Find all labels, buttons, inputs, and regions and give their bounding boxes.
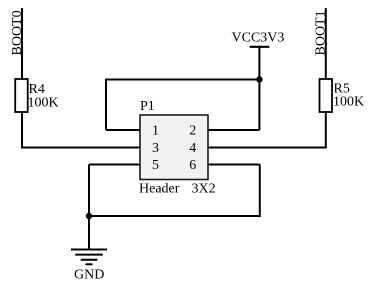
svg-text:GND: GND xyxy=(74,268,104,283)
svg-text:3: 3 xyxy=(152,141,159,156)
svg-text:5: 5 xyxy=(152,158,159,173)
wire VCC vertical xyxy=(258,47,260,130)
wire GND right vertical xyxy=(259,165,261,218)
wire pin5 horizontal xyxy=(89,164,140,166)
wire pin2 horizontal xyxy=(208,129,259,131)
connector P1 Header 3X2 xyxy=(139,99,216,197)
wire pin4 row right xyxy=(208,147,327,149)
svg-text:P1: P1 xyxy=(140,99,155,114)
svg-text:BOOT1: BOOT1 xyxy=(314,10,329,55)
svg-text:100K: 100K xyxy=(333,95,364,110)
resistor R4 xyxy=(15,79,58,112)
svg-text:3X2: 3X2 xyxy=(192,182,216,197)
svg-text:6: 6 xyxy=(189,158,196,173)
power VCC3V3 xyxy=(232,31,285,47)
ground xyxy=(71,216,107,283)
svg-text:BOOT0: BOOT0 xyxy=(10,10,25,55)
wire VCC top horizontal xyxy=(106,79,259,81)
wire BOOT1 vertical xyxy=(325,8,327,148)
svg-text:Header: Header xyxy=(139,182,180,197)
wire pin3 row left xyxy=(21,147,140,149)
svg-text:4: 4 xyxy=(189,141,196,156)
wire pin1 horizontal xyxy=(106,129,140,131)
junction dot VCC xyxy=(256,76,262,82)
wire GND left vertical xyxy=(88,165,90,217)
resistor R5 xyxy=(320,79,365,112)
svg-text:VCC3V3: VCC3V3 xyxy=(232,31,285,46)
wire BOOT0 vertical xyxy=(21,8,23,148)
junction dot GND xyxy=(86,213,92,219)
svg-text:1: 1 xyxy=(152,124,159,139)
svg-text:2: 2 xyxy=(189,124,196,139)
svg-text:100K: 100K xyxy=(28,95,59,110)
wire GND bottom horizontal xyxy=(89,215,260,217)
wire left loop vertical xyxy=(105,79,107,131)
wire pin6 horizontal xyxy=(208,164,260,166)
